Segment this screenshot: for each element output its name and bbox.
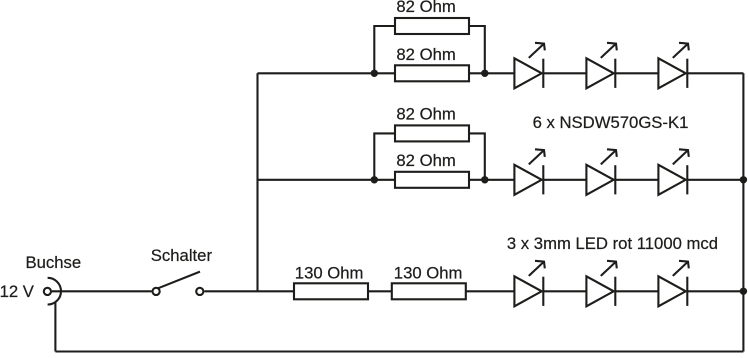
svg-text:130 Ohm: 130 Ohm bbox=[394, 264, 463, 283]
svg-text:6 x NSDW570GS-K1: 6 x NSDW570GS-K1 bbox=[533, 113, 689, 132]
svg-text:Schalter: Schalter bbox=[151, 246, 213, 265]
svg-text:82 Ohm: 82 Ohm bbox=[396, 45, 455, 64]
svg-text:82 Ohm: 82 Ohm bbox=[396, 104, 455, 123]
svg-text:12 V: 12 V bbox=[0, 282, 35, 301]
svg-text:82 Ohm: 82 Ohm bbox=[396, 151, 455, 170]
svg-text:3 x 3mm LED rot 11000 mcd: 3 x 3mm LED rot 11000 mcd bbox=[507, 234, 718, 253]
svg-text:130 Ohm: 130 Ohm bbox=[295, 264, 364, 283]
svg-text:Buchse: Buchse bbox=[26, 253, 82, 272]
svg-text:82 Ohm: 82 Ohm bbox=[396, 0, 455, 16]
